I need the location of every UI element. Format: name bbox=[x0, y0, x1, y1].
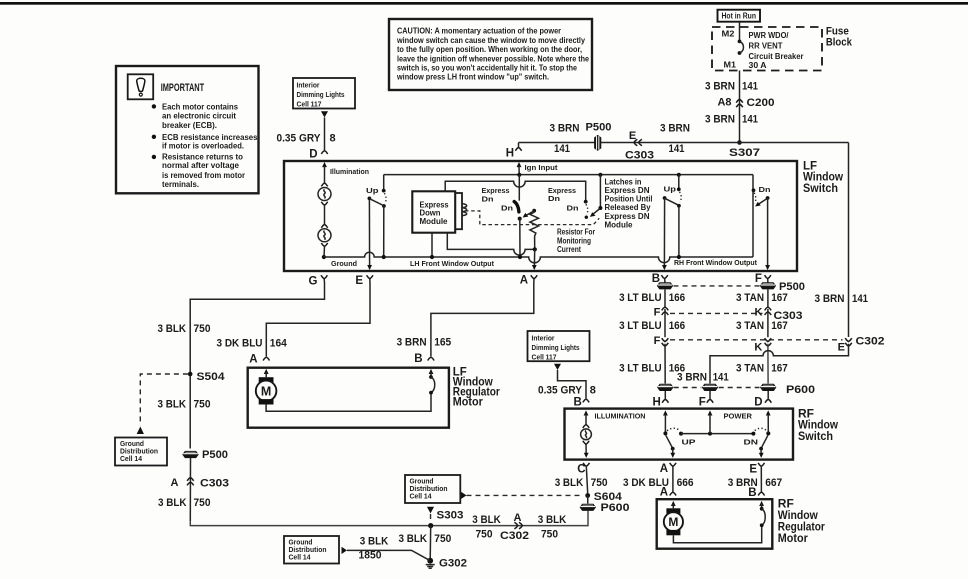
svg-text:RR VENT: RR VENT bbox=[749, 42, 783, 51]
wire S303 to G302 bbox=[429, 526, 432, 561]
motor pin B flare bbox=[758, 492, 764, 496]
svg-text:B: B bbox=[748, 487, 756, 499]
pin D connector flare bbox=[321, 151, 327, 155]
middle switch arm bbox=[592, 209, 600, 215]
svg-text:167: 167 bbox=[771, 292, 788, 304]
note box frame bbox=[116, 66, 259, 193]
svg-text:Ign Input: Ign Input bbox=[525, 163, 559, 172]
RF pin F flare bbox=[707, 399, 713, 403]
dashed C303 row bbox=[670, 312, 763, 314]
junction bus bbox=[382, 255, 386, 259]
svg-text:750: 750 bbox=[591, 477, 608, 489]
svg-text:Up: Up bbox=[366, 186, 379, 195]
fuse block dashed outline bbox=[712, 27, 822, 71]
wire pivot to output bus bbox=[519, 219, 521, 257]
B entry arrow bbox=[584, 410, 589, 415]
motor A entry arrow bbox=[671, 501, 676, 506]
connector P500 inline bbox=[594, 135, 601, 151]
splice S604 bbox=[585, 493, 590, 498]
svg-text:A: A bbox=[249, 354, 257, 366]
wire BRN from C302 down and across bbox=[710, 344, 849, 384]
wire A to motor bbox=[672, 466, 674, 491]
connector P600 inline bbox=[580, 504, 596, 511]
svg-text:POWER: POWER bbox=[724, 413, 753, 420]
RF pin H flare bbox=[662, 399, 668, 403]
svg-text:an electronic circuit: an electronic circuit bbox=[162, 112, 236, 121]
svg-text:Each motor contains: Each motor contains bbox=[162, 102, 239, 111]
motor M1 (LF) bbox=[259, 377, 274, 382]
wire bulb to ground bus bbox=[323, 247, 326, 258]
wire E output to motor A bbox=[266, 279, 370, 357]
svg-text:terminals.: terminals. bbox=[162, 180, 199, 189]
svg-text:Cell 117: Cell 117 bbox=[297, 99, 322, 108]
svg-text:Ground: Ground bbox=[120, 441, 144, 448]
svg-text:D: D bbox=[754, 397, 762, 409]
svg-text:normal after voltage: normal after voltage bbox=[162, 161, 240, 170]
up switch lower contact bbox=[382, 204, 386, 208]
svg-text:167: 167 bbox=[771, 362, 788, 374]
svg-text:K: K bbox=[754, 341, 762, 353]
reference arrow from dimming box bbox=[321, 111, 328, 117]
svg-text:3 TAN: 3 TAN bbox=[736, 320, 764, 332]
wire segment TAN to P600 bbox=[767, 344, 769, 384]
svg-text:141: 141 bbox=[669, 143, 685, 155]
pin D entry arrow bbox=[322, 162, 327, 167]
svg-text:CAUTION: A momentary actuatio: CAUTION: A momentary actuation of the po… bbox=[397, 27, 561, 36]
svg-text:B: B bbox=[414, 353, 422, 365]
svg-text:141: 141 bbox=[554, 143, 570, 155]
svg-text:Dn: Dn bbox=[567, 203, 579, 212]
wire H to right corner bbox=[519, 142, 849, 144]
svg-text:to the fully open position. W: to the fully open position. When working… bbox=[397, 45, 582, 54]
illumination bulb 2 bbox=[321, 224, 327, 228]
RF pin D flare bbox=[765, 399, 771, 403]
dn switch top contact bbox=[752, 188, 756, 192]
svg-text:164: 164 bbox=[270, 337, 288, 349]
RF dn switch arm bbox=[761, 435, 768, 448]
svg-text:window switch can cause the wi: window switch can cause the window to mo… bbox=[396, 36, 585, 45]
junction resistor/sense bbox=[533, 247, 537, 251]
svg-text:166: 166 bbox=[669, 292, 686, 304]
right frame wire ign bus to output bus bbox=[752, 175, 754, 257]
wire below P500 bbox=[189, 458, 191, 521]
motor internal wire bbox=[266, 392, 431, 411]
svg-text:Released By: Released By bbox=[605, 203, 652, 212]
svg-text:8: 8 bbox=[590, 385, 596, 397]
wire arm to F output bbox=[767, 198, 769, 266]
C exit arrow bbox=[584, 453, 589, 458]
svg-text:M2: M2 bbox=[722, 29, 736, 38]
H entry arrow bbox=[663, 410, 668, 415]
dashed reference from ground distribution to S303 bbox=[427, 507, 434, 514]
svg-text:Dn: Dn bbox=[482, 194, 494, 203]
Interior Dimming Lights Cell 117 box (right) bbox=[528, 331, 590, 361]
svg-text:G302: G302 bbox=[439, 558, 467, 570]
svg-text:LF: LF bbox=[803, 160, 817, 172]
svg-text:Motor: Motor bbox=[778, 533, 808, 545]
express dn switch pivot bbox=[518, 217, 522, 221]
svg-text:Dn: Dn bbox=[548, 194, 560, 203]
up switch pivot bbox=[368, 197, 372, 201]
LF window switch box bbox=[284, 161, 797, 271]
wire G down-left bbox=[190, 279, 324, 449]
motor ECB breaker bbox=[760, 507, 764, 511]
up switch travel arc bbox=[384, 193, 386, 203]
svg-text:667: 667 bbox=[765, 477, 782, 489]
svg-text:Module: Module bbox=[605, 221, 634, 230]
stems to RF switch pins bbox=[664, 391, 666, 399]
RF window switch box bbox=[565, 409, 794, 460]
illumination bulb 1 bbox=[321, 183, 327, 187]
motor A entry arrow bbox=[264, 369, 269, 374]
motor B entry arrow bbox=[429, 369, 434, 374]
svg-text:E: E bbox=[749, 463, 757, 475]
svg-text:1850: 1850 bbox=[359, 550, 382, 562]
wire A output to motor B bbox=[431, 279, 534, 357]
Express Down Module shadow box bbox=[418, 193, 462, 229]
svg-text:Ground: Ground bbox=[289, 539, 313, 546]
svg-text:Interior: Interior bbox=[532, 333, 555, 342]
svg-text:DN: DN bbox=[744, 439, 759, 446]
svg-text:750: 750 bbox=[194, 323, 211, 335]
svg-text:G: G bbox=[309, 276, 318, 288]
bullet 1 bbox=[152, 104, 156, 108]
motor ECB breaker bbox=[429, 375, 433, 379]
svg-text:A: A bbox=[520, 274, 528, 286]
circuit breaker arc bbox=[740, 41, 744, 53]
svg-text:750: 750 bbox=[194, 399, 211, 411]
svg-text:Resistor For: Resistor For bbox=[557, 228, 595, 237]
wire 3 BLK 1850 to G302 bbox=[347, 550, 430, 560]
svg-text:750: 750 bbox=[541, 528, 558, 540]
pin A flare bbox=[531, 275, 537, 279]
wire dimming to D bbox=[324, 118, 326, 151]
svg-text:0.35 GRY: 0.35 GRY bbox=[538, 385, 583, 397]
svg-text:141: 141 bbox=[742, 114, 758, 126]
svg-text:P600: P600 bbox=[601, 502, 630, 514]
svg-text:165: 165 bbox=[434, 336, 451, 348]
svg-text:Cell 117: Cell 117 bbox=[532, 352, 557, 361]
svg-text:C: C bbox=[577, 463, 585, 475]
svg-text:B: B bbox=[652, 273, 660, 285]
svg-text:Current: Current bbox=[557, 245, 581, 254]
svg-text:if motor is overloaded.: if motor is overloaded. bbox=[162, 142, 244, 151]
Interior Dimming Lights Cell 117 box (left) bbox=[293, 78, 355, 109]
svg-text:750: 750 bbox=[476, 528, 493, 540]
wire resistor to A output bbox=[533, 249, 535, 266]
svg-text:Cell 14: Cell 14 bbox=[410, 493, 432, 500]
caution icon exclamation bbox=[137, 78, 145, 91]
svg-text:RF: RF bbox=[778, 499, 794, 511]
module sense wire bbox=[447, 233, 535, 255]
svg-text:C302: C302 bbox=[856, 335, 885, 347]
svg-text:Express DN: Express DN bbox=[605, 186, 650, 195]
svg-text:8: 8 bbox=[330, 133, 336, 145]
svg-text:Distribution: Distribution bbox=[410, 486, 448, 493]
svg-text:Dn: Dn bbox=[501, 204, 513, 213]
svg-text:Cell 14: Cell 14 bbox=[289, 554, 311, 561]
svg-text:3 BRN: 3 BRN bbox=[550, 123, 580, 135]
svg-text:3 BRN: 3 BRN bbox=[660, 123, 690, 135]
motor pin A flare bbox=[670, 492, 676, 496]
wire B (LT BLU) down bbox=[664, 290, 666, 308]
module feed bus wire bbox=[445, 181, 586, 201]
motor B entry arrow bbox=[759, 501, 764, 506]
dashed reference to ground distribution bbox=[140, 374, 188, 426]
svg-text:A: A bbox=[660, 487, 668, 499]
middle switch travel arc bbox=[586, 204, 588, 214]
resistor R (monitoring) top contact bbox=[532, 209, 536, 213]
wire between bulbs bbox=[324, 205, 326, 224]
svg-text:3 LT BLU: 3 LT BLU bbox=[619, 292, 662, 304]
svg-text:UP: UP bbox=[682, 439, 696, 446]
svg-text:3 BRN: 3 BRN bbox=[815, 293, 845, 305]
wire segment bbox=[767, 309, 769, 337]
Ground Distribution Cell 14 box (left) bbox=[115, 438, 167, 466]
svg-text:3 LT BLU: 3 LT BLU bbox=[619, 362, 662, 374]
svg-text:0.35 GRY: 0.35 GRY bbox=[277, 133, 322, 145]
pin G flare bbox=[321, 275, 327, 279]
top border rule bbox=[0, 2, 968, 5]
svg-text:Ground: Ground bbox=[410, 478, 434, 485]
wire pivot to B output bbox=[663, 198, 665, 266]
RF illumination bulb bbox=[583, 425, 589, 429]
svg-text:P500: P500 bbox=[202, 449, 228, 461]
pin F exit arrow bbox=[765, 265, 770, 270]
svg-text:A8: A8 bbox=[718, 97, 732, 109]
splice S307 bbox=[737, 140, 742, 145]
svg-text:3 BLK: 3 BLK bbox=[158, 497, 187, 509]
svg-text:3 BLK: 3 BLK bbox=[158, 323, 187, 335]
wire E to motor bbox=[760, 466, 762, 491]
svg-text:3 BLK: 3 BLK bbox=[472, 514, 501, 526]
svg-text:Dn: Dn bbox=[759, 185, 771, 194]
junction F feed bbox=[708, 432, 712, 436]
connector P600 inline (H) bbox=[657, 384, 673, 391]
LF Window Regulator Motor box bbox=[248, 368, 449, 428]
module output wire to bus bbox=[431, 233, 433, 257]
up switch feed from ign bus bbox=[383, 175, 385, 191]
splice S504 bbox=[188, 372, 193, 377]
svg-text:Dimming Lights: Dimming Lights bbox=[532, 343, 580, 352]
svg-text:C200: C200 bbox=[747, 97, 775, 109]
svg-text:is removed from motor: is removed from motor bbox=[162, 171, 245, 180]
svg-text:Distribution: Distribution bbox=[120, 449, 158, 456]
RF up switch arm bbox=[666, 435, 673, 448]
wire bulb to C bbox=[585, 444, 587, 455]
pin F flare bbox=[765, 275, 771, 279]
motor M2 (RF) bbox=[666, 508, 680, 513]
svg-text:PWR WDO/: PWR WDO/ bbox=[749, 31, 790, 40]
svg-text:Motor: Motor bbox=[453, 396, 483, 408]
svg-text:666: 666 bbox=[677, 477, 694, 489]
pin C flare bbox=[583, 463, 589, 467]
svg-text:B: B bbox=[573, 397, 581, 409]
svg-text:ILLUMINATION: ILLUMINATION bbox=[595, 413, 646, 420]
svg-text:3 LT BLU: 3 LT BLU bbox=[619, 320, 662, 332]
svg-text:3 BLK: 3 BLK bbox=[555, 477, 584, 489]
connector P600 inline (F) bbox=[702, 384, 718, 391]
svg-text:167: 167 bbox=[771, 320, 788, 332]
up switch pivot bbox=[663, 196, 667, 200]
svg-text:3 BRN: 3 BRN bbox=[397, 336, 427, 348]
svg-text:Cell 14: Cell 14 bbox=[120, 456, 142, 463]
pin A flare bbox=[670, 463, 676, 467]
svg-text:breaker (ECB).: breaker (ECB). bbox=[162, 121, 217, 130]
svg-text:750: 750 bbox=[194, 497, 211, 509]
middle switch feed from ign bus bbox=[598, 173, 602, 177]
svg-text:Window: Window bbox=[803, 172, 843, 184]
svg-text:P500: P500 bbox=[586, 122, 612, 134]
wire pivot to E output bbox=[368, 198, 370, 266]
up switch arm bbox=[665, 198, 679, 205]
svg-text:3 BLK: 3 BLK bbox=[399, 533, 428, 545]
svg-text:Dimming Lights: Dimming Lights bbox=[297, 90, 345, 99]
wire S604 to P600 bbox=[587, 496, 589, 504]
connector P500 inline (F wire) bbox=[760, 282, 776, 289]
module coil bbox=[462, 204, 467, 216]
RF motor box bbox=[657, 499, 773, 549]
svg-text:3 BRN: 3 BRN bbox=[705, 81, 735, 93]
svg-text:H: H bbox=[506, 147, 514, 159]
Express Down Module box U1 bbox=[412, 191, 455, 232]
wire right side drop bbox=[848, 143, 850, 338]
wire dimming to RF B bbox=[558, 370, 587, 398]
svg-text:C303: C303 bbox=[200, 478, 229, 490]
svg-text:3 TAN: 3 TAN bbox=[736, 362, 764, 374]
pin B exit arrow bbox=[662, 265, 667, 270]
E exit arrow bbox=[760, 449, 762, 456]
middle switch pivot bbox=[598, 206, 602, 210]
dashed P600 links bbox=[674, 387, 702, 389]
svg-text:Module: Module bbox=[420, 217, 449, 226]
svg-text:F: F bbox=[654, 306, 661, 318]
svg-text:750: 750 bbox=[434, 533, 451, 545]
svg-text:C303: C303 bbox=[625, 150, 654, 162]
svg-text:3 DK BLU: 3 DK BLU bbox=[217, 337, 263, 349]
pin A exit arrow bbox=[532, 265, 537, 270]
ignition bus wire bbox=[384, 174, 753, 176]
power bar wire bbox=[681, 433, 753, 435]
RF up/dn bar left contact bbox=[679, 432, 683, 436]
caution box frame bbox=[389, 19, 592, 90]
wire segment bbox=[664, 309, 666, 337]
svg-text:Window: Window bbox=[778, 510, 818, 522]
LF motor pin B flare bbox=[428, 357, 434, 361]
ground G302 bbox=[427, 558, 433, 564]
mechanical link dashed bbox=[465, 211, 599, 225]
dashed C302 row bbox=[670, 339, 843, 341]
svg-text:3 TAN: 3 TAN bbox=[736, 292, 764, 304]
svg-text:D: D bbox=[309, 149, 317, 161]
connector P500 inline (B wire) bbox=[657, 282, 673, 289]
svg-text:F: F bbox=[699, 397, 706, 409]
svg-text:Switch: Switch bbox=[803, 183, 838, 195]
wire B flare stem bbox=[664, 279, 666, 283]
wire segment LT BLU to P600 bbox=[664, 344, 666, 384]
svg-text:S303: S303 bbox=[437, 510, 464, 522]
pin H connector flare bbox=[518, 143, 520, 147]
svg-text:LH Front Window Output: LH Front Window Output bbox=[410, 259, 494, 268]
pin E flare bbox=[758, 463, 764, 467]
svg-text:Window: Window bbox=[798, 420, 838, 432]
wire Hot in Run to breaker bbox=[739, 22, 741, 41]
svg-text:141: 141 bbox=[713, 371, 729, 383]
wire M1 down to S307 bbox=[739, 71, 741, 143]
svg-text:Monitoring: Monitoring bbox=[557, 236, 591, 245]
svg-text:Distribution: Distribution bbox=[289, 547, 327, 554]
long ground bus wire to RF side bbox=[190, 511, 588, 526]
svg-text:166: 166 bbox=[669, 320, 686, 332]
switch arm pointer to pivot bbox=[525, 211, 534, 216]
splice S303 bbox=[428, 523, 433, 528]
pin H entry arrow bbox=[517, 162, 522, 167]
svg-text:3 BRN: 3 BRN bbox=[705, 114, 735, 126]
connector P500 inline bbox=[182, 451, 198, 458]
dn switch travel arc bbox=[754, 193, 756, 204]
svg-text:M1: M1 bbox=[724, 60, 737, 69]
svg-text:A: A bbox=[171, 477, 179, 489]
svg-text:Hot in Run: Hot in Run bbox=[722, 12, 757, 21]
wire F (TAN) down bbox=[767, 290, 769, 308]
svg-text:Up: Up bbox=[664, 184, 677, 193]
svg-text:RH Front Window Output: RH Front Window Output bbox=[674, 258, 757, 267]
dashed P500 link bbox=[674, 285, 760, 287]
RF up switch pivot bbox=[663, 431, 667, 435]
express dn switch arm (latched, heavy) bbox=[514, 202, 519, 212]
up switch lower contact bbox=[677, 204, 681, 208]
reference arrow from dimming box bbox=[554, 364, 561, 370]
svg-text:F: F bbox=[654, 335, 661, 347]
Ground Distribution Cell 14 box (bottom) bbox=[284, 536, 339, 564]
svg-text:window press LH front window ": window press LH front window "up" switch… bbox=[396, 73, 549, 82]
svg-text:S504: S504 bbox=[197, 371, 226, 383]
F entry arrow bbox=[708, 410, 713, 415]
svg-text:P600: P600 bbox=[786, 384, 815, 396]
caution icon box bbox=[128, 74, 154, 99]
svg-text:S307: S307 bbox=[729, 147, 760, 159]
wire F flare stem bbox=[767, 279, 769, 283]
svg-text:Regulator: Regulator bbox=[778, 522, 825, 534]
junction ground bus bbox=[322, 255, 326, 259]
Hot in Run box bbox=[718, 10, 761, 22]
up switch travel arc bbox=[680, 192, 682, 202]
pin B flare bbox=[661, 275, 667, 279]
RF dn switch pivot bbox=[766, 431, 770, 435]
svg-text:3 BLK: 3 BLK bbox=[360, 536, 389, 548]
RF pin B flare bbox=[583, 399, 589, 403]
svg-text:30 A: 30 A bbox=[749, 61, 767, 70]
up switch contact wire to bus bbox=[383, 206, 385, 257]
svg-text:C302: C302 bbox=[500, 530, 529, 542]
RF up switch travel arc bbox=[667, 428, 680, 431]
dashed reference arrow to G302 wire bbox=[342, 547, 348, 554]
svg-text:141: 141 bbox=[852, 293, 868, 305]
bullet 2 bbox=[152, 135, 156, 139]
svg-text:Interior: Interior bbox=[297, 80, 320, 89]
wire C to S604 bbox=[586, 466, 587, 493]
svg-text:leave the ignition off wheneve: leave the ignition off whenever possible… bbox=[397, 54, 589, 63]
contact wire to bus bbox=[678, 206, 680, 257]
RF dn switch travel arc bbox=[755, 428, 767, 431]
A exit arrow bbox=[672, 449, 674, 456]
svg-text:M: M bbox=[668, 515, 678, 529]
junction ign bus / H bbox=[517, 173, 521, 177]
pin E exit arrow bbox=[367, 265, 372, 270]
svg-text:F: F bbox=[755, 273, 762, 285]
svg-text:3 BLK: 3 BLK bbox=[538, 514, 567, 526]
svg-text:H: H bbox=[652, 397, 660, 409]
